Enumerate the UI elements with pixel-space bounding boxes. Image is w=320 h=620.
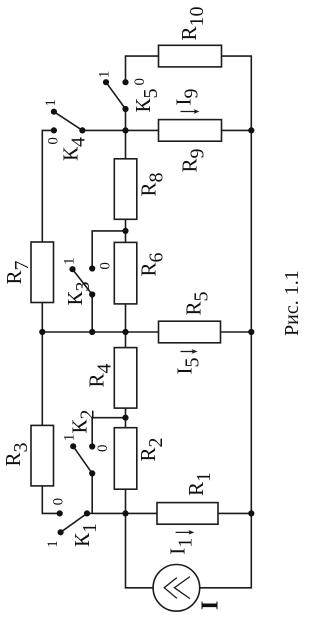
wire: R6 bottom lead to middle bus <box>125 304 127 332</box>
switch K4 pivot <box>79 127 85 133</box>
svg-text:R8: R8 <box>137 172 168 196</box>
svg-text:0: 0 <box>51 498 67 506</box>
switch K3 terminal 1 <box>69 266 75 272</box>
current source arrow chevrons <box>164 577 190 599</box>
node: middle bus / R6 / R4 junction <box>122 329 128 335</box>
switch K2 pivot <box>89 470 95 476</box>
svg-text:0: 0 <box>95 445 111 453</box>
svg-text:I1: I1 <box>166 538 197 555</box>
svg-text:К5: К5 <box>131 88 162 112</box>
switch K1 terminal 1 <box>58 529 64 535</box>
svg-text:I: I <box>198 601 224 610</box>
svg-text:1: 1 <box>43 99 59 107</box>
junction and terminal dots <box>39 79 254 535</box>
resistor R2 body <box>114 428 137 490</box>
wire: R9 right lead to right bus node <box>222 129 252 131</box>
wire: R8 top lead from upper bus node <box>125 130 127 158</box>
wire: R5 right lead to right bus node <box>221 331 252 333</box>
switch K5 pivot <box>122 106 128 112</box>
wire: R4 bottom lead to node B and R2 top lead <box>125 408 127 428</box>
node: R9-R10 right junction <box>248 127 254 133</box>
switch K2 terminal 0 <box>89 443 95 449</box>
wire: left column between middle bus and R3 <box>41 332 43 425</box>
node: middle bus / left column junction <box>39 329 45 335</box>
svg-text:R1: R1 <box>184 472 215 496</box>
resistor R6 body <box>114 242 137 304</box>
resistor R8 body <box>114 159 137 220</box>
wire: K3 pivot to middle bus <box>91 295 93 333</box>
resistor R5 body <box>159 321 221 343</box>
switch K4 terminal 0 <box>51 127 57 133</box>
svg-text:R9: R9 <box>178 148 209 172</box>
svg-text:Рис. 1.1: Рис. 1.1 <box>281 270 303 336</box>
svg-text:I9: I9 <box>172 89 203 106</box>
svg-text:1: 1 <box>61 258 77 266</box>
switch K4 arm (pivot to position 1) <box>54 112 83 131</box>
node: lower bus / right bus junction <box>248 510 254 516</box>
current arrow I5 <box>181 351 196 353</box>
node B: R4/R2/K2-branch junction <box>122 415 128 421</box>
resistor R7 body <box>31 242 54 303</box>
node: lower bus / R2 junction <box>122 510 128 516</box>
svg-text:R7: R7 <box>2 260 33 284</box>
wire: middle bus left segment to R5 <box>42 331 158 333</box>
wire: K5 pivot to upper bus node <box>125 109 127 130</box>
wire: R10 left lead to K5 "0" terminal <box>126 56 159 82</box>
switch K4 terminal 1 <box>51 109 57 115</box>
svg-text:0: 0 <box>132 78 148 86</box>
wire: K2 pivot to lower bus <box>91 473 93 513</box>
node: upper bus / K5 / R8 junction <box>122 127 128 133</box>
wire: R7 bottom lead to middle bus <box>41 303 43 333</box>
switch K1 arm (pivot to position 1) <box>61 513 87 532</box>
svg-text:0: 0 <box>46 137 62 145</box>
svg-text:R10: R10 <box>177 6 208 40</box>
svg-text:R5: R5 <box>182 291 213 315</box>
node: middle bus / right bus junction <box>248 329 254 335</box>
svg-text:К2: К2 <box>68 409 99 433</box>
svg-text:R2: R2 <box>136 437 167 461</box>
resistor R10 body <box>159 45 222 67</box>
wire: bottom loop left side to current source <box>126 513 154 587</box>
resistor R9 body <box>159 120 222 142</box>
wire: R2 bottom lead to lower bus <box>125 489 127 513</box>
switch K1 terminal 0 <box>57 510 63 516</box>
wire: node B branch to K2 "0" terminal <box>92 418 125 447</box>
switch K5 terminal 1 <box>103 79 109 85</box>
switch K3 terminal 0 <box>89 265 95 271</box>
svg-text:К4: К4 <box>59 137 90 161</box>
wire: lower bus from K1 pivot to R1 left lead <box>87 512 157 514</box>
wire: R10 right lead down to right bus node <box>222 56 252 130</box>
switch K5 terminal 0 <box>122 79 128 85</box>
switch K2 arm (pivot to position 1) <box>73 446 92 473</box>
svg-text:0: 0 <box>98 262 114 270</box>
svg-text:I5: I5 <box>172 358 203 375</box>
wire: right bus vertical <box>250 130 252 513</box>
svg-text:R3: R3 <box>1 442 32 466</box>
svg-text:R6: R6 <box>137 252 168 276</box>
wire: R3 bottom lead to K1 "0" terminal <box>42 486 59 514</box>
wire: upper bus from K4 pivot to R9 left lead <box>82 129 158 131</box>
switch K3 arm (pivot to position 1) <box>73 269 93 294</box>
svg-text:1: 1 <box>96 71 112 79</box>
wire: K4 "0" terminal to left column corner <box>42 130 54 242</box>
node: middle bus / K3 junction <box>89 329 95 335</box>
wire: node A branch to K3 "0" terminal <box>92 231 125 269</box>
wire: R4 top lead from middle bus <box>125 332 127 348</box>
resistor R4 body <box>114 348 137 409</box>
switch K5 arm (pivot to position 1) <box>106 82 126 109</box>
switch K3 pivot <box>89 291 95 297</box>
svg-text:R4: R4 <box>85 363 116 387</box>
svg-text:К1: К1 <box>70 523 101 547</box>
svg-text:1: 1 <box>62 434 78 442</box>
wire: R8 bottom lead to node A <box>125 219 127 242</box>
wire: bottom loop right side from current source <box>200 513 252 587</box>
switch K1 pivot <box>84 510 90 516</box>
switch K2 terminal 1 <box>70 443 76 449</box>
current arrow I9 <box>181 111 198 113</box>
current source I circle <box>153 565 200 612</box>
resistor R1 body <box>157 503 218 525</box>
wire: R1 right lead to right bus node <box>218 512 251 514</box>
resistor R3 body <box>31 425 54 486</box>
svg-text:1: 1 <box>45 540 61 548</box>
node A: R8/R6/K3-branch junction <box>122 228 128 234</box>
current arrow I1 <box>176 531 193 533</box>
